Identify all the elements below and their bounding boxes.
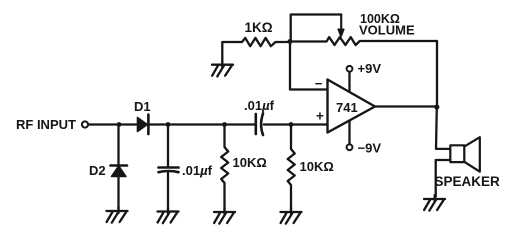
wire C1 branch down [167, 125, 169, 167]
svg-text:.01µf: .01µf [244, 98, 275, 113]
wire R2 node to op-amp + input [291, 123, 327, 125]
svg-text:D1: D1 [134, 99, 151, 114]
svg-text:SPEAKER: SPEAKER [435, 174, 501, 189]
ground (C1 branch) [158, 208, 179, 224]
capacitor C2 .01uf series [256, 114, 263, 136]
svg-text:−9V: −9V [358, 141, 382, 156]
capacitor C1 .01uf shunt [159, 168, 179, 173]
svg-text:VOLUME: VOLUME [359, 23, 415, 38]
svg-text:+: + [316, 109, 324, 124]
wire D2 to ground [117, 177, 119, 210]
ground (R1) [214, 208, 235, 224]
wire ground to R3 [222, 42, 240, 63]
terminal RF input [82, 121, 88, 127]
wire op-amp output [375, 105, 437, 107]
wire input to D1 [89, 123, 137, 125]
terminal -9V [347, 144, 353, 150]
ground (R3 1K) [212, 62, 233, 76]
node C1 branch [166, 122, 171, 127]
svg-text:10KΩ: 10KΩ [233, 155, 267, 170]
ground (speaker) [424, 195, 445, 211]
wire junction up to wiper loop [291, 15, 342, 42]
wire +9V supply [348, 72, 350, 92]
wire right rail pot to output to speaker [436, 41, 450, 149]
ground (D2 branch) [107, 207, 128, 223]
wire D2 branch down [117, 125, 119, 165]
resistor R2 10K vertical [288, 125, 295, 210]
node feedback junction [288, 39, 293, 44]
speaker LS1 [450, 137, 480, 172]
wiper arrow of R4 [338, 15, 344, 37]
resistor R3 1K horizontal [240, 38, 290, 46]
node R1 branch [222, 122, 227, 127]
diode D1 [138, 115, 149, 135]
resistor R1 10K vertical [221, 125, 228, 210]
node D2 branch [117, 122, 122, 127]
wire R1 node to C2 [225, 123, 256, 125]
wire speaker bottom terminal to ground [436, 160, 451, 197]
svg-text:741: 741 [336, 100, 358, 115]
wire junction down to op-amp - input [290, 42, 327, 90]
wire C1 to ground [167, 173, 169, 210]
svg-text:.01µf: .01µf [182, 163, 213, 178]
diode D2 [111, 166, 128, 177]
wire C2 to R2 node [264, 123, 291, 125]
potentiometer R4 100K [290, 37, 437, 45]
terminal +9V [347, 66, 353, 72]
svg-text:+9V: +9V [358, 61, 382, 76]
node R2 branch [289, 122, 294, 127]
ground (R2) [281, 208, 302, 224]
svg-text:RF INPUT: RF INPUT [16, 117, 76, 132]
node output junction [434, 104, 439, 109]
svg-text:1KΩ: 1KΩ [245, 20, 273, 35]
wire -9V supply [348, 121, 350, 145]
svg-text:D2: D2 [89, 163, 106, 178]
svg-text:10KΩ: 10KΩ [300, 159, 334, 174]
wire D1 to C1 node [150, 123, 225, 125]
svg-text:−: − [315, 76, 323, 91]
op-amp U1 741 [328, 80, 376, 133]
